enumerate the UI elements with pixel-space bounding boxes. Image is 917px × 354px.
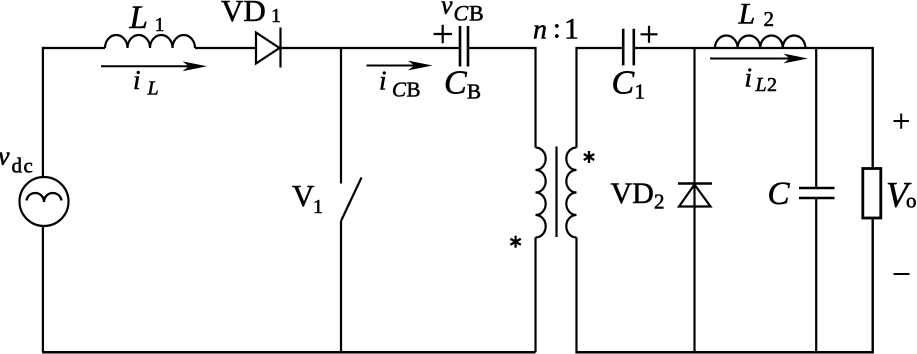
transformer primary winding (536, 148, 546, 238)
svg-text:L: L (129, 0, 148, 36)
svg-text:C: C (612, 65, 635, 102)
inductor L1 (105, 35, 195, 48)
current arrow iL (101, 65, 190, 67)
plus sign output (894, 114, 910, 129)
svg-text:o: o (906, 189, 917, 213)
plus sign CB (434, 25, 453, 43)
svg-text:1: 1 (271, 5, 281, 27)
capacitor CB (459, 26, 462, 67)
capacitor C plates (799, 187, 835, 190)
polarity star secondary (584, 151, 594, 163)
svg-text:v: v (441, 0, 453, 20)
svg-text:L: L (147, 78, 159, 100)
wire primary winding to bottom rail (534, 238, 536, 353)
svg-text:v: v (0, 142, 10, 171)
switch branch wire upper (340, 48, 342, 184)
svg-text:L: L (755, 74, 767, 96)
inductor L2 (715, 36, 805, 49)
wire VD1 to CB (281, 47, 459, 49)
wire L1 to VD1 (195, 47, 256, 49)
diode VD2 branch wire (693, 48, 695, 352)
svg-text:C: C (392, 78, 407, 102)
svg-text:n: n (533, 14, 547, 45)
minus sign output (894, 273, 910, 275)
svg-text:1: 1 (155, 14, 165, 36)
wire bottom-left rail (42, 351, 535, 354)
switch V1 blade (341, 178, 362, 222)
switch branch wire lower (340, 221, 342, 352)
plus sign C1 (641, 26, 658, 43)
transformer secondary winding (566, 148, 576, 238)
source vdc circle (20, 177, 69, 226)
svg-text:B: B (469, 1, 484, 26)
source wave symbol (27, 193, 62, 202)
transformer core (555, 147, 557, 238)
diode VD2 (678, 182, 712, 184)
wire bottom-right rail (575, 351, 874, 354)
wire secondary winding to bottom rail (575, 238, 577, 353)
wire right edge upper (872, 47, 874, 169)
svg-text:2: 2 (767, 74, 777, 96)
svg-text:VD: VD (221, 0, 266, 28)
wire secondary top to C1 (577, 48, 623, 148)
wire top-left segment (43, 47, 105, 49)
load resistor Vo box (863, 169, 881, 219)
svg-text:i: i (379, 66, 387, 96)
svg-text:2: 2 (654, 190, 665, 214)
svg-text:1: 1 (635, 80, 646, 104)
svg-text:L: L (738, 0, 756, 31)
svg-text:1: 1 (313, 196, 323, 218)
svg-text:i: i (745, 63, 753, 93)
svg-text:2: 2 (764, 7, 775, 31)
svg-text:C: C (768, 176, 791, 212)
wire left edge (42, 47, 44, 177)
svg-text:B: B (467, 80, 481, 104)
capacitor C branch wire lower (815, 198, 817, 352)
wire CB to transformer primary, down to winding (469, 48, 536, 148)
svg-text::: : (553, 14, 561, 45)
svg-text:C: C (454, 1, 469, 26)
svg-text:V: V (292, 178, 315, 213)
wire C1 to right corner (635, 47, 873, 49)
svg-text:B: B (407, 78, 421, 102)
svg-text:VD: VD (611, 177, 654, 210)
svg-text:dc: dc (12, 154, 35, 178)
capacitor C1 (622, 29, 625, 66)
capacitor C branch wire upper (815, 48, 817, 188)
polarity star primary (510, 236, 520, 248)
current arrow iL2 (710, 58, 790, 60)
wire right edge lower (872, 218, 874, 352)
svg-text:1: 1 (564, 13, 579, 46)
current arrow iCB (367, 65, 416, 67)
svg-text:C: C (444, 65, 467, 102)
svg-text:i: i (133, 65, 141, 95)
diode VD1 (256, 33, 280, 64)
